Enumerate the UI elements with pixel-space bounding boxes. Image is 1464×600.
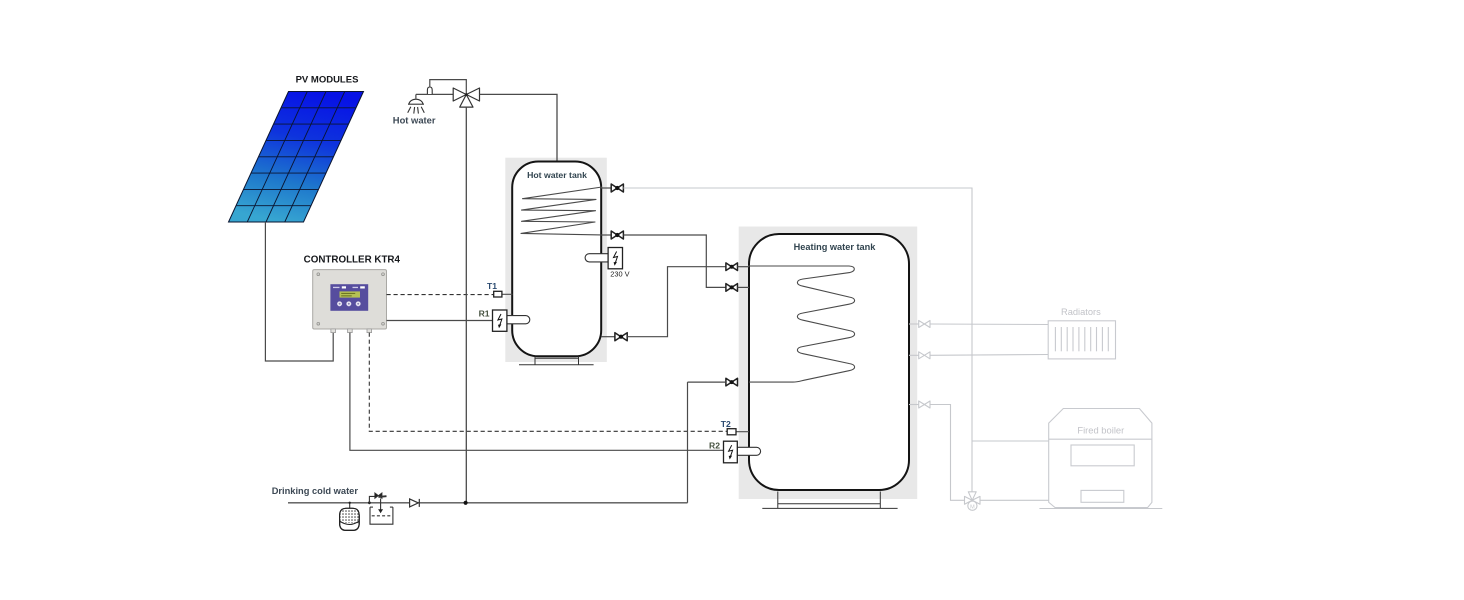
valve 1 heating tank bbox=[726, 263, 738, 271]
svg-text:CONTROLLER KTR4: CONTROLLER KTR4 bbox=[304, 254, 401, 265]
solar coil in hot water tank bbox=[521, 187, 602, 235]
radiator return valve bbox=[919, 352, 930, 359]
radiator supply valve bbox=[919, 321, 930, 328]
shower head (hot water draw-off) bbox=[408, 94, 425, 113]
svg-text:R1: R1 bbox=[479, 308, 490, 318]
valve C bbox=[615, 333, 627, 341]
boiler port pipe bbox=[909, 404, 919, 406]
pipe valve2 into tank bbox=[738, 286, 750, 288]
pipe valve B to heating tank port 2 bbox=[623, 235, 726, 287]
pipe valve1 into tank bbox=[738, 266, 750, 268]
valve 3 heating tank bbox=[726, 378, 738, 386]
wire controller to R1 bbox=[387, 320, 493, 322]
valve A (hot water out) bbox=[611, 184, 623, 192]
check valve bbox=[410, 499, 420, 507]
svg-text:Hot water tank: Hot water tank bbox=[527, 170, 587, 180]
heating coil in heating water tank bbox=[748, 266, 855, 382]
pipe valve to radiator bottom bbox=[930, 354, 1048, 357]
safety valve group bbox=[368, 493, 393, 524]
svg-text:Drinking cold water: Drinking cold water bbox=[272, 486, 359, 496]
wire controller to T2 (dashed) bbox=[369, 333, 727, 432]
pipe tank to valve C bbox=[601, 336, 615, 338]
heating element R2 bbox=[724, 441, 761, 463]
wire controller to R2 bbox=[350, 333, 724, 451]
expansion vessel bbox=[340, 502, 360, 531]
wire controller to T1 (dashed) bbox=[387, 294, 494, 296]
heating water tank legs bbox=[762, 492, 897, 509]
pipe tank to valve A bbox=[601, 187, 611, 189]
heating water tank bbox=[749, 234, 909, 490]
valve B bbox=[611, 231, 623, 239]
junction node bbox=[464, 501, 468, 505]
temperature sensor T1 bbox=[494, 291, 513, 297]
pipe valve C to heating tank port 1 bbox=[627, 267, 726, 337]
svg-text:T2: T2 bbox=[721, 419, 731, 429]
temperature sensor T2 bbox=[727, 429, 749, 435]
pipe riser to boiler flow bbox=[972, 440, 1049, 442]
cold feed riser bbox=[687, 382, 689, 503]
pipe valve to mixing valve bbox=[930, 405, 965, 501]
gray backdrop hot water tank bbox=[505, 158, 607, 362]
pipe valve to radiator bbox=[930, 323, 1048, 326]
pipe valve A to boiler circuit (light) bbox=[623, 188, 972, 492]
cold water riser pipe bbox=[465, 107, 467, 503]
bypass pipe over valve bbox=[430, 80, 467, 95]
valve 2 heating tank bbox=[726, 284, 738, 292]
pipe valve to hot water tank top bbox=[480, 94, 558, 161]
pipe valve3 to cold feed riser bbox=[688, 381, 726, 383]
svg-text:Fired boiler: Fired boiler bbox=[1077, 424, 1124, 435]
svg-text:T1: T1 bbox=[487, 281, 497, 291]
pipe shower to 3-way valve bbox=[416, 93, 453, 95]
3-way mixing valve bbox=[453, 88, 479, 107]
motor mixing valve with pump bbox=[965, 492, 981, 511]
svg-text:M: M bbox=[970, 504, 975, 510]
boiler ground line bbox=[1039, 508, 1162, 510]
hot water tank legs bbox=[519, 357, 594, 365]
radiator return pipe bbox=[909, 354, 919, 356]
boiler port valve bbox=[919, 401, 930, 408]
gray backdrop heating water tank bbox=[739, 227, 918, 500]
controller KTR4 bbox=[313, 270, 387, 333]
radiator bbox=[1048, 321, 1115, 359]
hot water tank bbox=[512, 162, 601, 357]
air vent fitting bbox=[427, 87, 432, 94]
radiator supply pipe bbox=[909, 323, 919, 325]
svg-text:Hot water: Hot water bbox=[393, 114, 436, 125]
svg-text:PV MODULES: PV MODULES bbox=[296, 75, 359, 86]
fired boiler bbox=[1049, 409, 1152, 508]
svg-text:Heating water tank: Heating water tank bbox=[794, 242, 877, 252]
svg-text:Radiators: Radiators bbox=[1061, 307, 1101, 317]
heating element R1 bbox=[493, 310, 530, 331]
electric heater 230V bbox=[585, 248, 622, 269]
pipe tank to valve B bbox=[601, 234, 611, 236]
drinking cold water pipe bbox=[288, 502, 688, 504]
svg-text:R2: R2 bbox=[709, 441, 720, 451]
pipe mixing valve to boiler bbox=[980, 499, 1049, 501]
wire PV to controller bbox=[265, 222, 333, 361]
PV module array bbox=[229, 92, 364, 223]
svg-text:230 V: 230 V bbox=[610, 269, 629, 278]
